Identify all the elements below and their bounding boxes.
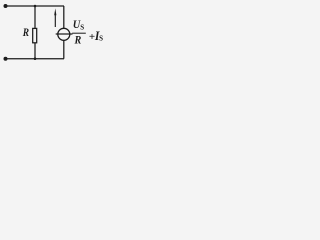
terminal dot bottom-left — [4, 57, 8, 61]
wire resistor branch bottom — [34, 43, 36, 59]
svg-text:S: S — [99, 35, 103, 43]
wire right branch bottom — [63, 40, 65, 59]
wire resistor branch top — [34, 6, 36, 28]
current source bar — [56, 33, 73, 35]
svg-text:S: S — [80, 23, 84, 31]
terminal dot top-left — [4, 4, 8, 8]
current direction arrow — [54, 13, 56, 27]
svg-text:R: R — [74, 33, 82, 47]
node junction top of R branch — [34, 5, 37, 8]
wire right branch top — [63, 6, 65, 29]
node junction bottom of R branch — [34, 57, 37, 60]
wire top — [6, 5, 65, 7]
resistor R body — [33, 28, 37, 42]
fraction bar — [72, 32, 86, 34]
wire bottom — [6, 58, 65, 60]
svg-text:R: R — [22, 25, 29, 39]
current source circle — [58, 28, 70, 40]
